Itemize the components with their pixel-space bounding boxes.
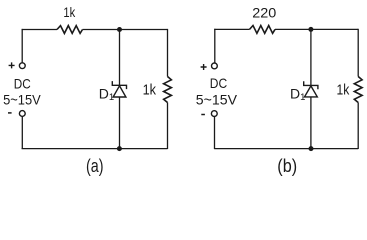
wire: (a) left vertical from top rail to + terminal — [21, 29, 23, 63]
wire: (b) top rail left segment — [214, 28, 249, 30]
resistor R 1k (a) vertical zigzag — [164, 77, 172, 103]
wire: (a) right branch upper — [167, 29, 169, 77]
svg-text:(b): (b) — [277, 156, 297, 176]
svg-text:(a): (a) — [86, 156, 104, 176]
resistor R 220 (b) horizontal zigzag — [250, 26, 276, 34]
wire: (b) top rail right segment — [275, 28, 358, 30]
wire: (b) left vertical from - terminal to bottom rail — [214, 117, 216, 149]
svg-text:DC: DC — [14, 76, 31, 92]
svg-text:D1: D1 — [290, 86, 305, 104]
junction dot: (b) bottom node — [309, 146, 314, 151]
wire: (a) bottom rail — [22, 148, 168, 150]
label: minus sign (b) — [201, 114, 205, 116]
wire: (a) middle branch upper — [119, 30, 121, 86]
svg-text:DC: DC — [210, 75, 227, 91]
terminal circle: (b) - terminal — [211, 111, 217, 117]
junction dot: (a) bottom node — [117, 146, 122, 151]
wire: (b) middle branch upper — [310, 29, 312, 85]
wire: (b) middle branch lower — [310, 97, 312, 148]
wire: (a) top rail left segment — [22, 29, 57, 31]
terminal circle: (a) + terminal — [19, 63, 25, 69]
zener diode D1 (b) anode triangle — [305, 86, 318, 97]
zener diode D1 (b) cathode bar with bent ends — [304, 81, 318, 89]
wire: (a) right branch lower — [167, 103, 169, 150]
wire: (b) bottom rail — [214, 148, 358, 150]
label: minus sign (a) — [8, 112, 12, 114]
wire: (b) right branch lower — [357, 103, 359, 150]
terminal circle: (b) + terminal — [212, 63, 218, 69]
wire: (b) right branch upper — [357, 29, 359, 77]
label: plus sign (b) — [201, 64, 207, 70]
svg-text:1k: 1k — [63, 4, 76, 20]
svg-text:1k: 1k — [337, 81, 350, 98]
svg-text:220: 220 — [252, 4, 276, 20]
svg-text:D1: D1 — [99, 85, 114, 103]
svg-text:5~15V: 5~15V — [196, 92, 238, 108]
svg-text:5~15V: 5~15V — [3, 92, 41, 108]
zener diode D1 (a) cathode bar with bent ends — [112, 81, 126, 89]
zener diode D1 (a) anode triangle — [113, 86, 126, 97]
junction dot: (a) top node — [117, 27, 122, 32]
terminal circle: (a) - terminal — [19, 111, 25, 117]
label: plus sign (a) — [9, 62, 15, 68]
resistor R 1k (a) horizontal zigzag — [57, 26, 83, 34]
svg-text:1k: 1k — [143, 82, 157, 99]
wire: (a) middle branch lower — [119, 97, 121, 148]
wire: (b) left vertical from top rail to + terminal — [214, 29, 216, 63]
wire: (a) left vertical from - terminal to bottom rail — [21, 117, 23, 150]
resistor R 1k (b) vertical zigzag — [354, 77, 362, 103]
wire: (a) top rail right segment — [83, 29, 168, 31]
junction dot: (b) top node — [308, 27, 313, 32]
